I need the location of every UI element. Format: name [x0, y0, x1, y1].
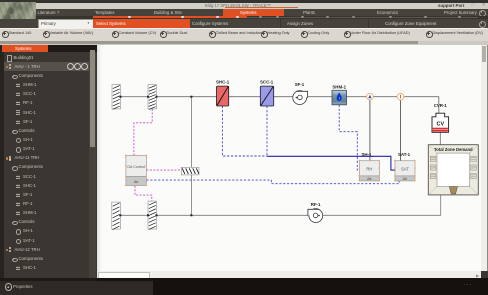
control wire: OA damper to OA Control (magenta) [134, 108, 152, 155]
wire: return duct [157, 194, 441, 214]
svg-text:RF-1: RF-1 [311, 202, 321, 207]
progress strip [36, 16, 488, 20]
svg-text:SH-1: SH-1 [361, 152, 372, 157]
heating coil SHC-1 [216, 79, 230, 105]
setpoint box SH-1 (RH) [359, 152, 381, 181]
svg-text:SCC-1: SCC-1 [260, 79, 274, 84]
svg-text:OA Control: OA Control [127, 165, 145, 169]
active tab Systems [223, 9, 284, 16]
svg-text:SF-1: SF-1 [295, 82, 305, 87]
svg-text:SAT-1: SAT-1 [398, 152, 411, 157]
wire: main supply duct [157, 95, 439, 97]
control wire: OA Control to return damper (magenta) [135, 185, 152, 200]
corner photo thumbnail [0, 2, 36, 24]
damper recirculation [181, 167, 199, 175]
schematic canvas [97, 45, 481, 272]
canvas v scrollbar [481, 45, 487, 272]
svg-text:RH: RH [366, 166, 372, 171]
svg-text:CVR-1: CVR-1 [434, 102, 448, 107]
control wire: SHC-1 drop (blue dashed) [222, 106, 267, 156]
svg-text:SHC-1: SHC-1 [216, 79, 230, 84]
setpoint box SAT-1 [394, 152, 416, 181]
svg-text:Total Zone Demand: Total Zone Demand [434, 147, 473, 152]
title bar [0, 3, 488, 9]
wire: recirculation vertical [190, 96, 192, 215]
Primary dropdown [38, 19, 94, 29]
wire: OA louver to OA damper [121, 95, 149, 97]
control wire: SCC-1 drop (blue dashed) [266, 106, 268, 156]
Select Systems (active) [93, 19, 190, 28]
bottom bars [97, 278, 488, 295]
sensor humidity node [367, 93, 374, 100]
controller CVR-1 [432, 102, 449, 132]
controller OA Control [125, 154, 147, 186]
toolbar scrollbar [0, 41, 488, 45]
fan SF-1 [293, 82, 308, 104]
cooling coil SCC-1 [260, 79, 274, 105]
control wire: coils to SAT box (blue solid) [267, 156, 395, 170]
fan RF-1 [308, 202, 323, 222]
tree scrollbar [89, 52, 96, 278]
wire: sensor drop to RH box [369, 99, 371, 160]
sensor temperature node [397, 93, 404, 100]
junction dots [120, 95, 122, 97]
svg-text:SAT: SAT [401, 166, 409, 171]
control wire: OA Control to SAT box Air (blue dashed) [146, 180, 399, 184]
wire: drop into CVR-1 [438, 96, 440, 112]
left tree [7, 55, 13, 62]
louver OA intake [112, 84, 121, 109]
svg-text:SHM-1: SHM-1 [332, 84, 346, 89]
sub tab row [0, 19, 488, 28]
canvas h scrollbar [97, 271, 481, 278]
svg-text:Air: Air [134, 180, 139, 184]
louver exhaust [112, 202, 121, 229]
control wire: OA Control to recirc damper (magenta) [146, 169, 181, 171]
wire: exhaust louver to return damper [120, 214, 148, 216]
wire: sensor drop to SAT box [400, 99, 402, 160]
wire: CVR-1 to Total Zone Demand [439, 132, 441, 144]
damper return air [148, 201, 157, 229]
system type toolbar [0, 28, 488, 43]
window top border [0, 0, 488, 3]
Total Zone Demand box [428, 144, 478, 194]
control wire: SHM-1 to RH box (blue dashed) [339, 104, 359, 169]
svg-text:CV: CV [437, 121, 445, 127]
main tab bar [36, 9, 488, 16]
damper OA [148, 84, 157, 109]
